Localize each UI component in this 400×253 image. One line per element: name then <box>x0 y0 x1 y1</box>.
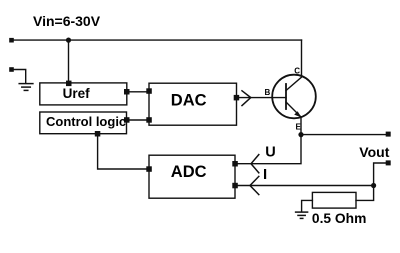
svg-text:0.5 Ohm: 0.5 Ohm <box>312 211 366 226</box>
wire Uref to DAC <box>127 91 149 93</box>
terminal Vout <box>386 160 391 165</box>
svg-text:Uref: Uref <box>63 86 91 101</box>
node square DAC left lower <box>146 117 152 123</box>
arrow left U <box>251 155 259 173</box>
node junction I wire <box>371 183 376 188</box>
wire junction to Uref <box>68 40 70 83</box>
node square Uref top <box>66 81 72 87</box>
block DAC <box>149 83 237 125</box>
resistor R 0.5 Ohm <box>312 192 356 208</box>
wire I sense <box>237 185 374 187</box>
block Uref <box>40 83 127 105</box>
node square ADC left <box>146 166 152 172</box>
wire emitter to U sense <box>237 135 302 164</box>
node junction on Vin rail <box>66 38 71 43</box>
svg-text:B: B <box>265 88 271 97</box>
transistor Q1 circle <box>272 75 316 119</box>
wire emitter down <box>300 117 302 135</box>
node junction emitter <box>298 132 303 137</box>
transistor Q1 collector <box>286 40 302 90</box>
wire DAC to base <box>237 97 287 99</box>
wire terminal to ground <box>12 70 26 84</box>
arrow left I <box>250 176 259 194</box>
wire Control logic to ADC <box>98 134 149 169</box>
wire Control logic to DAC <box>127 119 150 121</box>
node square DAC left upper <box>146 88 152 94</box>
arrow right on DAC output <box>242 91 251 106</box>
node square Uref right <box>124 89 130 95</box>
transistor Q1 emitter arrowhead <box>294 111 301 117</box>
svg-text:Vout: Vout <box>359 144 389 160</box>
transistor Q1 base bar <box>285 84 287 109</box>
ground left <box>19 84 33 91</box>
svg-text:DAC: DAC <box>171 92 207 110</box>
node square DAC right <box>234 95 240 101</box>
wire top rail Vin <box>12 39 302 41</box>
ground right <box>296 212 308 218</box>
node square ADC right upper <box>232 161 238 167</box>
node square ADC right lower <box>232 183 238 189</box>
svg-text:U: U <box>265 145 275 161</box>
terminal Vin+ <box>9 38 14 43</box>
block ADC <box>149 155 235 198</box>
svg-text:C: C <box>294 66 300 75</box>
terminal emitter right <box>386 132 391 137</box>
wire junction to resistor right <box>356 186 374 201</box>
wire Vout to junction <box>374 163 386 186</box>
svg-text:I: I <box>263 166 267 183</box>
node square Control logic bottom <box>95 131 101 137</box>
node square Control logic right <box>124 117 130 123</box>
terminal Vin- <box>9 67 14 72</box>
svg-text:ADC: ADC <box>171 163 207 181</box>
wire resistor left to ground <box>302 200 313 211</box>
svg-text:Control logic: Control logic <box>46 114 126 129</box>
wire emitter to Vout rail <box>301 134 386 136</box>
block Control logic <box>40 112 127 134</box>
svg-text:Vin=6-30V: Vin=6-30V <box>33 13 101 29</box>
transistor Q1 emitter <box>286 102 301 117</box>
